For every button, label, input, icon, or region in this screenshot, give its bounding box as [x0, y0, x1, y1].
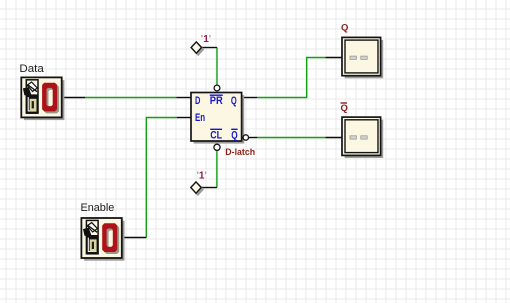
svg-text:Q: Q [341, 22, 348, 33]
svg-text:'1': '1' [197, 170, 207, 182]
svg-text:D: D [195, 95, 200, 107]
svg-text:En: En [195, 112, 205, 124]
svg-text:Data: Data [19, 63, 44, 75]
svg-text:Enable: Enable [81, 202, 115, 214]
svg-text:D-latch: D-latch [225, 147, 255, 158]
svg-text:Q: Q [341, 103, 348, 114]
svg-text:CL: CL [210, 130, 222, 142]
svg-text:PR: PR [210, 95, 223, 107]
svg-text:'1': '1' [201, 33, 211, 45]
svg-text:Q: Q [231, 130, 238, 142]
svg-text:Q: Q [231, 95, 237, 107]
